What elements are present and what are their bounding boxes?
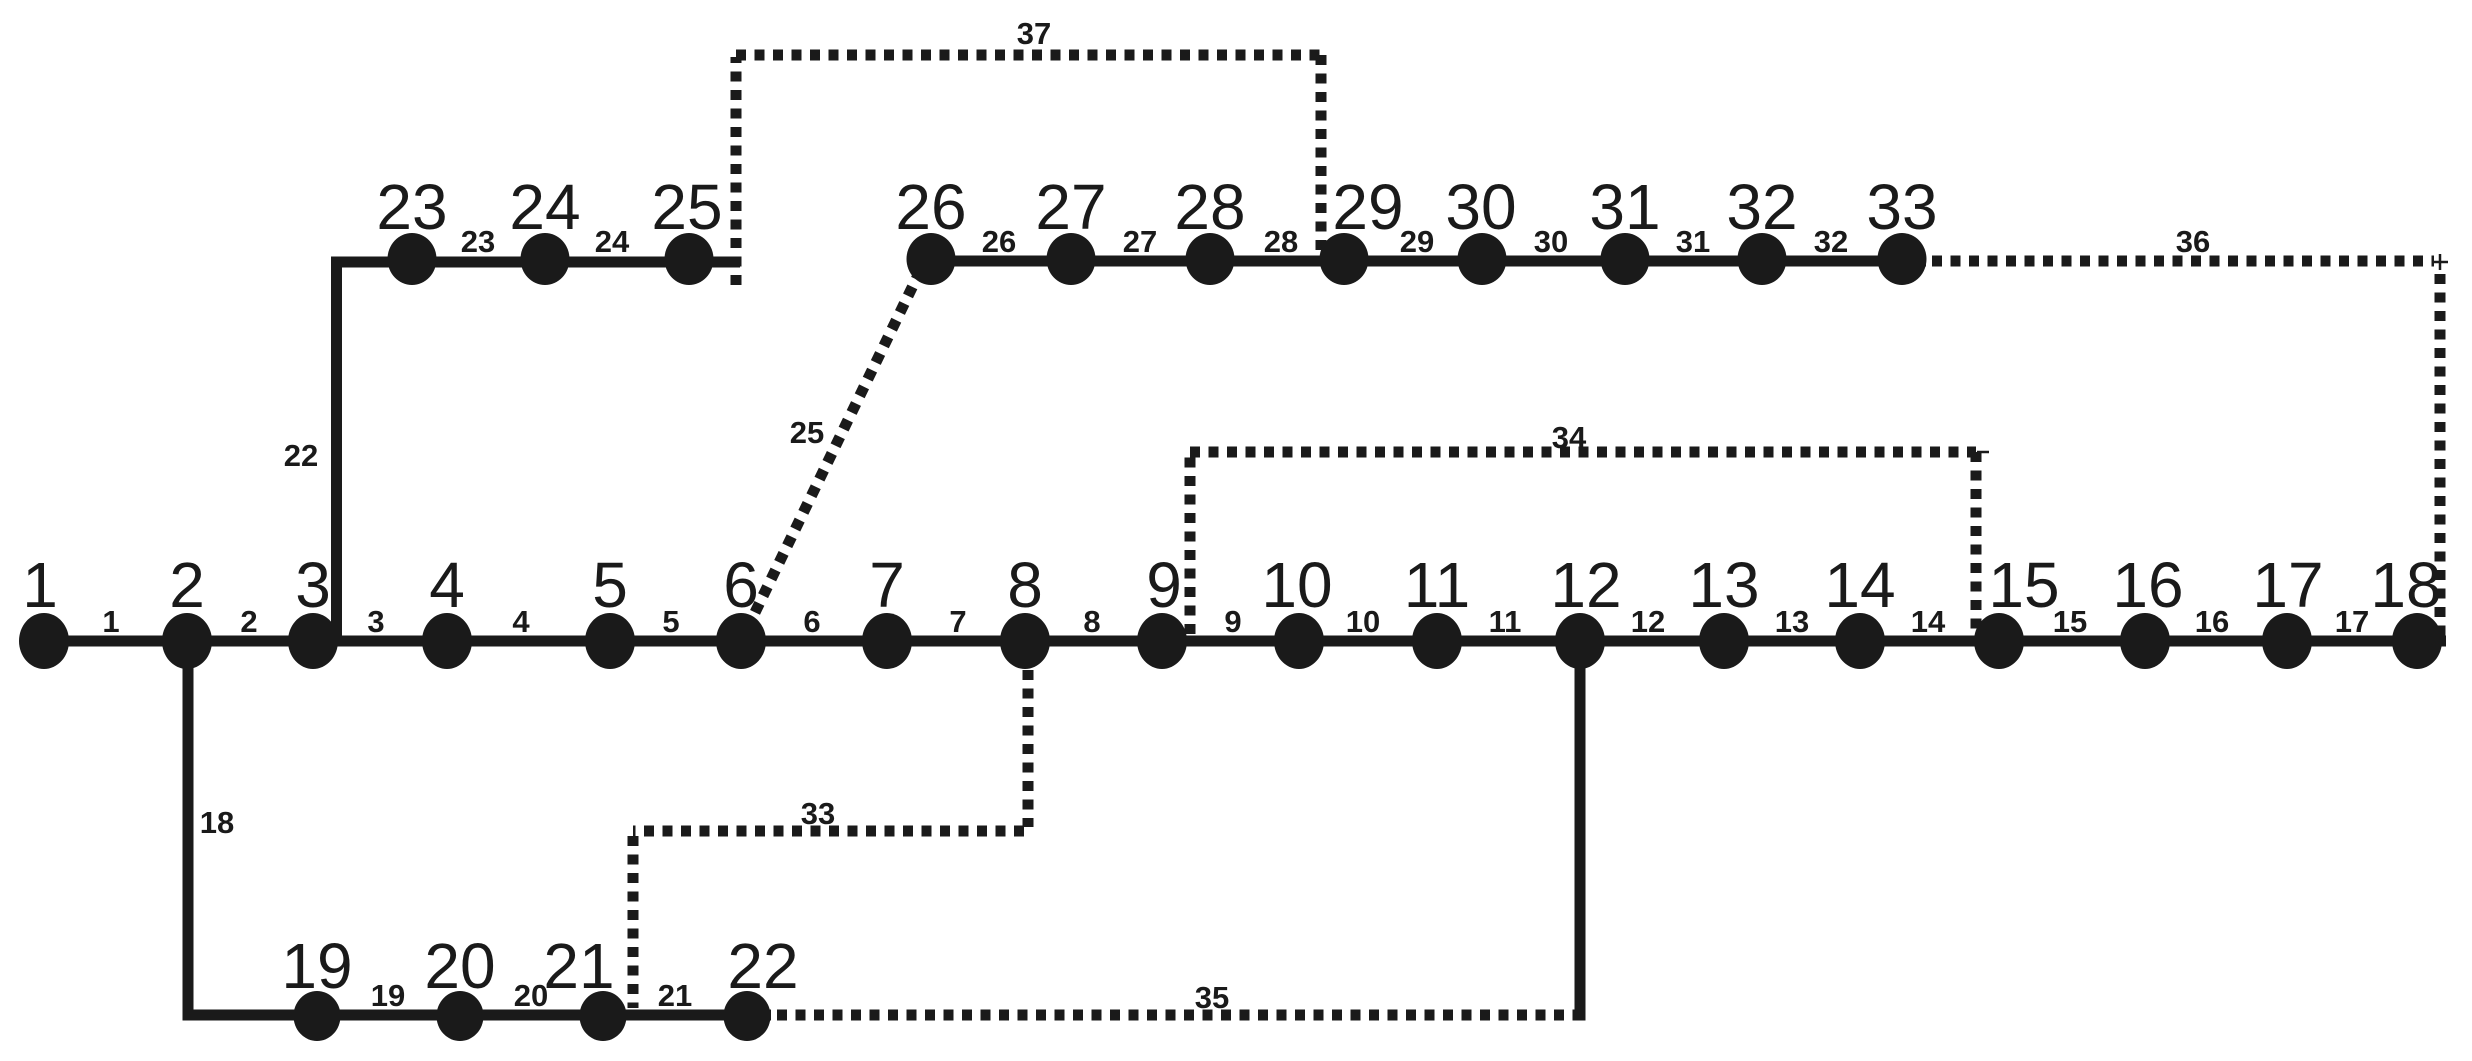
- svg-text:2: 2: [240, 604, 257, 639]
- svg-text:10: 10: [1261, 549, 1332, 621]
- svg-text:2: 2: [169, 549, 205, 621]
- svg-text:35: 35: [1195, 980, 1229, 1015]
- svg-text:17: 17: [2252, 549, 2323, 621]
- tie line 37 right leg down to bus 29: [1316, 55, 1327, 252]
- svg-text:28: 28: [1264, 224, 1298, 259]
- tie line 34 horizontal: [1190, 447, 1976, 458]
- bus node 2: [162, 613, 212, 669]
- svg-text:11: 11: [1489, 604, 1522, 639]
- tie line 37 horizontal: [736, 50, 1321, 61]
- svg-text:4: 4: [512, 604, 530, 639]
- tie line 37 left leg above bus 25: [731, 57, 742, 285]
- svg-text:34: 34: [1552, 420, 1587, 455]
- svg-text:7: 7: [949, 604, 966, 639]
- svg-text:14: 14: [1824, 549, 1895, 621]
- svg-text:22: 22: [727, 930, 798, 1002]
- svg-text:24: 24: [595, 224, 630, 259]
- bus node 33: [1878, 233, 1927, 285]
- svg-text:8: 8: [1083, 604, 1100, 639]
- svg-text:22: 22: [284, 438, 318, 473]
- bus node 17: [2262, 613, 2312, 669]
- svg-text:19: 19: [281, 930, 352, 1002]
- svg-text:30: 30: [1445, 171, 1516, 243]
- svg-text:31: 31: [1676, 224, 1710, 259]
- svg-text:7: 7: [869, 549, 905, 621]
- svg-text:16: 16: [2112, 549, 2183, 621]
- bus node 30: [1458, 233, 1507, 285]
- bus node 10: [1274, 613, 1324, 669]
- svg-text:25: 25: [790, 415, 824, 450]
- tie line 33 leg down to bus 21: [628, 836, 639, 1008]
- wire main feeder line buses 1-18: [44, 636, 2446, 647]
- bus node 23: [388, 233, 437, 285]
- bus node 32: [1738, 233, 1787, 285]
- svg-text:26: 26: [982, 224, 1016, 259]
- bus node 9: [1137, 613, 1187, 669]
- bus node 18: [2392, 613, 2442, 669]
- svg-text:15: 15: [2053, 604, 2087, 639]
- svg-text:28: 28: [1174, 171, 1245, 243]
- svg-text:21: 21: [658, 978, 692, 1013]
- tie line 33 leg below bus 8: [1023, 670, 1034, 827]
- bus node 7: [862, 613, 912, 669]
- svg-text:31: 31: [1589, 171, 1660, 243]
- svg-text:3: 3: [295, 549, 331, 621]
- svg-text:3: 3: [367, 604, 384, 639]
- svg-text:10: 10: [1346, 604, 1380, 639]
- svg-text:13: 13: [1688, 549, 1759, 621]
- tie line 34 right leg down to bus 15: [1971, 452, 1982, 634]
- svg-text:23: 23: [376, 171, 447, 243]
- wire lateral line buses 26-33: [921, 256, 1926, 267]
- svg-text:30: 30: [1534, 224, 1568, 259]
- svg-text:26: 26: [895, 171, 966, 243]
- svg-text:32: 32: [1726, 171, 1797, 243]
- bus node 14: [1835, 613, 1885, 669]
- svg-text:15: 15: [1988, 549, 2059, 621]
- svg-text:12: 12: [1631, 604, 1665, 639]
- svg-text:17: 17: [2335, 604, 2369, 639]
- svg-text:18: 18: [200, 805, 234, 840]
- svg-text:9: 9: [1224, 604, 1241, 639]
- svg-text:19: 19: [371, 978, 405, 1013]
- plus tick at tie 34 corner: [1977, 451, 1989, 454]
- bus node 25: [665, 233, 714, 285]
- bus node 26: [907, 233, 956, 285]
- svg-text:24: 24: [509, 171, 580, 243]
- svg-text:33: 33: [1866, 171, 1937, 243]
- svg-text:6: 6: [723, 549, 759, 621]
- bus node 3: [288, 613, 338, 669]
- wire branch 22 riser from bus 3 and lateral line buses 23-25: [337, 262, 741, 646]
- svg-text:4: 4: [429, 549, 465, 621]
- bus node 27: [1047, 233, 1096, 285]
- svg-text:6: 6: [803, 604, 820, 639]
- tie line 33 horizontal: [633, 826, 1024, 837]
- svg-text:1: 1: [22, 549, 58, 621]
- svg-text:20: 20: [514, 978, 548, 1013]
- svg-text:16: 16: [2195, 604, 2229, 639]
- bus node 1: [19, 613, 69, 669]
- wire solid drop of tie 35 from bus 12: [1575, 641, 1586, 1021]
- bus node 29: [1320, 233, 1369, 285]
- svg-text:13: 13: [1775, 604, 1809, 639]
- svg-text:29: 29: [1400, 224, 1434, 259]
- wire branch 18 drop from bus 2 and lateral line buses 19-22: [188, 641, 771, 1015]
- svg-text:11: 11: [1404, 549, 1470, 621]
- tie line 36 horizontal from bus 33: [1932, 256, 2434, 267]
- svg-text:14: 14: [1911, 604, 1946, 639]
- bus node 24: [521, 233, 570, 285]
- tie line 25 diagonal from bus 6 to bus 26: [747, 269, 921, 629]
- bus node 20: [437, 991, 484, 1041]
- bus node 4: [422, 613, 472, 669]
- svg-text:32: 32: [1814, 224, 1848, 259]
- bus node 6: [716, 613, 766, 669]
- svg-text:1: 1: [102, 604, 119, 639]
- bus node 22: [724, 991, 771, 1041]
- bus node 8: [1000, 613, 1050, 669]
- svg-text:33: 33: [801, 796, 835, 831]
- bus node 28: [1186, 233, 1235, 285]
- svg-text:18: 18: [2370, 549, 2441, 621]
- bus node 15: [1974, 613, 2024, 669]
- svg-text:5: 5: [592, 549, 628, 621]
- svg-text:36: 36: [2176, 224, 2210, 259]
- svg-text:25: 25: [651, 171, 722, 243]
- svg-text:8: 8: [1007, 549, 1043, 621]
- bus node 5: [585, 613, 635, 669]
- svg-text:23: 23: [461, 224, 495, 259]
- bus node 19: [294, 991, 341, 1041]
- bus node 31: [1601, 233, 1650, 285]
- svg-text:9: 9: [1146, 549, 1182, 621]
- svg-text:20: 20: [424, 930, 495, 1002]
- bus node 16: [2120, 613, 2170, 669]
- svg-text:27: 27: [1035, 171, 1106, 243]
- bus node 11: [1412, 613, 1462, 669]
- svg-text:37: 37: [1017, 16, 1051, 51]
- bus node 13: [1699, 613, 1749, 669]
- svg-text:12: 12: [1550, 549, 1621, 621]
- tie line 36 vertical down to bus 18: [2435, 274, 2446, 637]
- bus node 21: [580, 991, 627, 1041]
- svg-text:5: 5: [662, 604, 679, 639]
- bus node 12: [1555, 613, 1605, 669]
- tie line 35 dotted horizontal from bus 22 to bus 12 drop: [777, 1010, 1576, 1021]
- tie line 34 left leg above bus 9: [1185, 452, 1196, 634]
- svg-text:27: 27: [1123, 224, 1157, 259]
- svg-text:21: 21: [543, 930, 614, 1002]
- svg-text:29: 29: [1332, 171, 1403, 243]
- plus marker at tie 36 corner: [2432, 254, 2448, 270]
